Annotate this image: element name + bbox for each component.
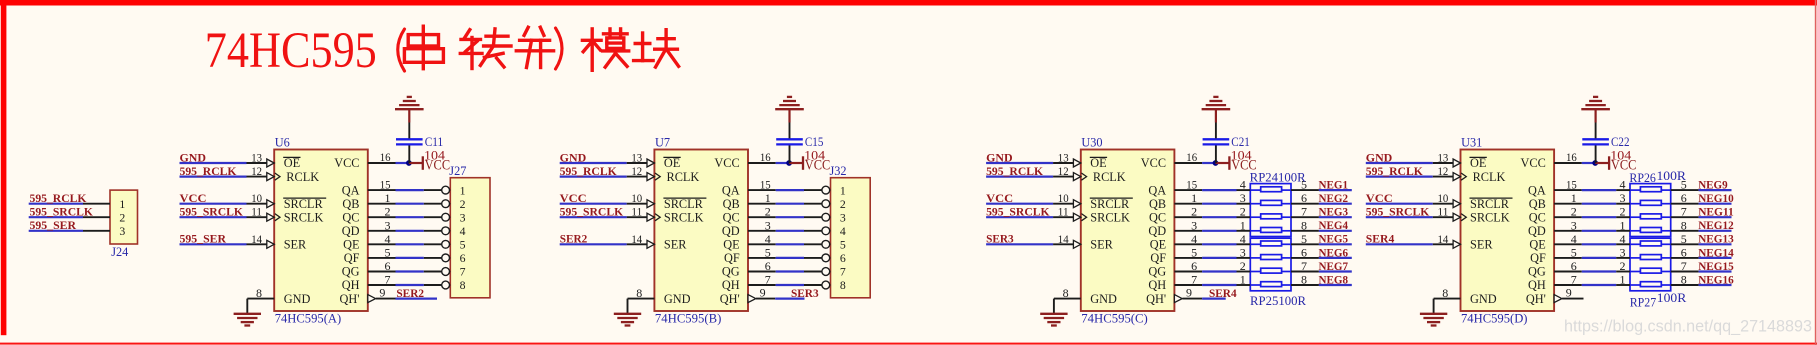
svg-text:5: 5	[385, 245, 391, 259]
svg-text:J24: J24	[111, 245, 128, 259]
svg-text:3: 3	[840, 210, 846, 224]
svg-text:C22: C22	[1611, 135, 1630, 149]
svg-text:OE: OE	[664, 156, 680, 170]
svg-text:4: 4	[1620, 232, 1626, 246]
svg-text:8: 8	[256, 286, 262, 300]
svg-text:12: 12	[631, 164, 642, 178]
svg-text:74HC595(A): 74HC595(A)	[275, 312, 342, 326]
svg-text:3: 3	[385, 218, 391, 232]
svg-text:4: 4	[460, 224, 466, 238]
svg-text:SER4: SER4	[1209, 288, 1237, 300]
svg-text:QF: QF	[724, 251, 740, 265]
svg-text:SRCLR: SRCLR	[1470, 197, 1510, 211]
svg-text:QD: QD	[722, 224, 740, 238]
svg-text:7: 7	[1301, 205, 1307, 219]
svg-text:13: 13	[631, 151, 642, 165]
svg-text:4: 4	[765, 232, 771, 246]
svg-text:https://blog.csdn.net/qq_27148: https://blog.csdn.net/qq_27148893	[1564, 318, 1812, 336]
svg-text:QH': QH'	[720, 292, 740, 306]
svg-text:8: 8	[1442, 286, 1448, 300]
svg-text:QD: QD	[1148, 224, 1166, 238]
svg-text:4: 4	[1571, 232, 1577, 246]
svg-text:QB: QB	[1149, 197, 1166, 211]
svg-text:15: 15	[380, 178, 391, 192]
svg-text:RCLK: RCLK	[1093, 170, 1126, 184]
svg-text:5: 5	[1571, 245, 1577, 259]
svg-text:QB: QB	[1529, 197, 1546, 211]
svg-text:VCC: VCC	[1141, 156, 1166, 170]
svg-text:RP27: RP27	[1630, 295, 1657, 309]
svg-text:16: 16	[380, 150, 391, 164]
svg-text:12: 12	[1058, 164, 1069, 178]
svg-text:VCC: VCC	[560, 193, 587, 205]
svg-text:4: 4	[1240, 232, 1246, 246]
svg-text:8: 8	[1301, 218, 1307, 232]
svg-text:QG: QG	[722, 265, 740, 279]
svg-text:1: 1	[840, 183, 846, 197]
svg-text:NEG5: NEG5	[1319, 234, 1349, 246]
svg-text:2: 2	[1620, 205, 1626, 219]
svg-text:104: 104	[1610, 148, 1631, 162]
svg-text:QH: QH	[342, 278, 360, 292]
svg-text:12: 12	[251, 164, 262, 178]
svg-text:NEG3: NEG3	[1319, 207, 1349, 219]
svg-text:QG: QG	[342, 265, 360, 279]
svg-text:14: 14	[1438, 232, 1449, 246]
svg-text:J27: J27	[449, 164, 466, 178]
svg-text:595_SER: 595_SER	[30, 220, 77, 232]
svg-text:VCC: VCC	[180, 193, 207, 205]
svg-text:QF: QF	[1530, 251, 1546, 265]
svg-text:NEG13: NEG13	[1698, 234, 1734, 246]
svg-text:GND: GND	[1366, 152, 1393, 164]
svg-text:NEG10: NEG10	[1698, 193, 1734, 205]
svg-text:6: 6	[460, 251, 466, 265]
svg-text:6: 6	[1681, 191, 1687, 205]
svg-text:QA: QA	[1148, 183, 1166, 197]
svg-text:2: 2	[765, 205, 771, 219]
svg-text:7: 7	[1681, 205, 1687, 219]
svg-text:10: 10	[1058, 191, 1069, 205]
svg-text:3: 3	[1240, 191, 1246, 205]
svg-text:GND: GND	[1470, 292, 1497, 306]
svg-text:1: 1	[119, 197, 125, 211]
svg-text:QC: QC	[342, 210, 359, 224]
svg-text:VCC: VCC	[334, 156, 359, 170]
svg-text:12: 12	[1438, 164, 1449, 178]
svg-text:OE: OE	[1090, 156, 1106, 170]
svg-text:SRCLR: SRCLR	[284, 197, 324, 211]
svg-text:13: 13	[1058, 151, 1069, 165]
svg-text:SER2: SER2	[396, 288, 424, 300]
svg-text:7: 7	[1191, 273, 1197, 287]
svg-text:2: 2	[1240, 205, 1246, 219]
svg-text:104: 104	[1231, 148, 1252, 162]
svg-text:15: 15	[1566, 178, 1577, 192]
svg-text:14: 14	[251, 232, 262, 246]
svg-text:1: 1	[1240, 273, 1246, 287]
svg-text:5: 5	[1301, 232, 1307, 246]
svg-text:14: 14	[1058, 232, 1069, 246]
svg-text:RCLK: RCLK	[286, 170, 319, 184]
svg-text:74HC595(C): 74HC595(C)	[1081, 312, 1148, 326]
svg-text:2: 2	[1571, 205, 1577, 219]
svg-text:3: 3	[765, 218, 771, 232]
svg-text:16: 16	[760, 150, 771, 164]
svg-text:NEG6: NEG6	[1319, 247, 1349, 259]
svg-text:1: 1	[765, 191, 771, 205]
svg-text:GND: GND	[180, 152, 207, 164]
svg-text:1: 1	[1620, 273, 1626, 287]
svg-text:VCC: VCC	[986, 193, 1013, 205]
svg-text:VCC: VCC	[1366, 193, 1393, 205]
svg-text:QD: QD	[342, 224, 360, 238]
svg-text:3: 3	[1191, 218, 1197, 232]
svg-text:11: 11	[251, 205, 262, 219]
svg-text:8: 8	[840, 278, 846, 292]
svg-text:1: 1	[1571, 191, 1577, 205]
svg-text:6: 6	[1301, 191, 1307, 205]
svg-text:QA: QA	[1528, 183, 1546, 197]
svg-text:U30: U30	[1081, 135, 1102, 149]
svg-text:595_SER: 595_SER	[180, 234, 227, 246]
svg-text:2: 2	[385, 205, 391, 219]
svg-text:595_SRCLK: 595_SRCLK	[180, 207, 244, 219]
svg-text:13: 13	[251, 151, 262, 165]
svg-text:9: 9	[379, 286, 385, 300]
svg-text:8: 8	[1681, 218, 1687, 232]
svg-text:SER2: SER2	[560, 234, 588, 246]
svg-text:104: 104	[424, 148, 445, 162]
svg-text:QE: QE	[1529, 238, 1545, 252]
svg-text:NEG11: NEG11	[1698, 207, 1734, 219]
svg-text:595_SRCLK: 595_SRCLK	[1366, 207, 1430, 219]
svg-text:595_RCLK: 595_RCLK	[560, 166, 617, 178]
svg-text:5: 5	[460, 238, 466, 252]
svg-text:595_SRCLK: 595_SRCLK	[560, 207, 624, 219]
svg-text:2: 2	[460, 197, 466, 211]
svg-text:100R: 100R	[1657, 291, 1687, 305]
svg-text:QC: QC	[1529, 210, 1546, 224]
svg-text:QG: QG	[1148, 265, 1166, 279]
svg-text:13: 13	[1438, 151, 1449, 165]
svg-text:SER: SER	[1470, 238, 1493, 252]
svg-text:3: 3	[119, 224, 125, 238]
svg-text:C21: C21	[1231, 135, 1250, 149]
svg-text:2: 2	[1240, 259, 1246, 273]
svg-text:C11: C11	[425, 135, 444, 149]
svg-text:4: 4	[385, 232, 391, 246]
svg-text:595_RCLK: 595_RCLK	[180, 166, 237, 178]
svg-text:NEG9: NEG9	[1698, 180, 1728, 192]
svg-text:SRCLK: SRCLK	[1090, 210, 1130, 224]
svg-text:1: 1	[385, 191, 391, 205]
svg-text:SER4: SER4	[1366, 234, 1395, 246]
svg-text:U31: U31	[1461, 135, 1482, 149]
svg-text:5: 5	[1191, 245, 1197, 259]
svg-text:1: 1	[460, 183, 466, 197]
svg-text:RCLK: RCLK	[667, 170, 700, 184]
svg-text:NEG4: NEG4	[1319, 220, 1349, 232]
svg-text:QE: QE	[1150, 238, 1166, 252]
svg-text:1: 1	[1191, 191, 1197, 205]
svg-text:GND: GND	[986, 152, 1013, 164]
svg-text:8: 8	[636, 286, 642, 300]
svg-text:4: 4	[840, 224, 846, 238]
svg-text:16: 16	[1186, 150, 1197, 164]
svg-text:2: 2	[119, 210, 125, 224]
svg-text:5: 5	[840, 238, 846, 252]
svg-text:7: 7	[1301, 259, 1307, 273]
svg-text:11: 11	[631, 205, 642, 219]
svg-text:7: 7	[765, 273, 771, 287]
svg-text:6: 6	[385, 259, 391, 273]
svg-text:4: 4	[1240, 178, 1246, 192]
svg-text:QH: QH	[722, 278, 740, 292]
svg-text:NEG14: NEG14	[1698, 247, 1734, 259]
svg-text:6: 6	[1301, 245, 1307, 259]
svg-text:11: 11	[1438, 205, 1449, 219]
svg-text:4: 4	[1191, 232, 1197, 246]
svg-text:595_SRCLK: 595_SRCLK	[986, 207, 1050, 219]
svg-text:8: 8	[1063, 286, 1069, 300]
svg-text:GND: GND	[1090, 292, 1117, 306]
svg-text:15: 15	[1186, 178, 1197, 192]
svg-text:104: 104	[804, 148, 825, 162]
svg-text:RCLK: RCLK	[1473, 170, 1506, 184]
svg-text:QF: QF	[1150, 251, 1166, 265]
svg-text:QG: QG	[1528, 265, 1546, 279]
svg-text:6: 6	[1571, 259, 1577, 273]
svg-text:14: 14	[631, 232, 642, 246]
svg-text:QB: QB	[342, 197, 359, 211]
svg-text:10: 10	[1438, 191, 1449, 205]
svg-text:2: 2	[1620, 259, 1626, 273]
svg-text:GND: GND	[560, 152, 587, 164]
svg-text:SRCLK: SRCLK	[664, 210, 704, 224]
svg-text:SRCLR: SRCLR	[664, 197, 704, 211]
svg-text:QH': QH'	[1146, 292, 1166, 306]
svg-text:QB: QB	[723, 197, 740, 211]
svg-text:OE: OE	[1470, 156, 1486, 170]
svg-text:3: 3	[1240, 245, 1246, 259]
svg-text:RP26: RP26	[1629, 171, 1656, 185]
svg-text:SER: SER	[1090, 238, 1113, 252]
svg-text:3: 3	[1571, 218, 1577, 232]
svg-text:100R: 100R	[1657, 169, 1687, 183]
svg-text:2: 2	[840, 197, 846, 211]
svg-text:6: 6	[1191, 259, 1197, 273]
svg-text:NEG1: NEG1	[1319, 180, 1349, 192]
svg-text:C15: C15	[805, 135, 824, 149]
svg-text:3: 3	[1620, 245, 1626, 259]
svg-text:SRCLR: SRCLR	[1090, 197, 1130, 211]
svg-text:6: 6	[1681, 245, 1687, 259]
svg-text:6: 6	[765, 259, 771, 273]
svg-text:8: 8	[460, 278, 466, 292]
svg-text:10: 10	[251, 191, 262, 205]
svg-text:8: 8	[1681, 273, 1687, 287]
svg-text:VCC: VCC	[1521, 156, 1546, 170]
svg-text:1: 1	[1240, 218, 1246, 232]
svg-text:NEG16: NEG16	[1698, 274, 1734, 286]
svg-text:595_RCLK: 595_RCLK	[1366, 166, 1423, 178]
svg-text:16: 16	[1566, 150, 1577, 164]
svg-text:SER3: SER3	[986, 234, 1014, 246]
svg-text:7: 7	[460, 265, 466, 279]
svg-text:RP25100R: RP25100R	[1250, 294, 1307, 308]
svg-text:QH: QH	[1528, 278, 1546, 292]
svg-text:9: 9	[760, 286, 766, 300]
svg-text:SER: SER	[284, 238, 307, 252]
svg-text:3: 3	[1620, 191, 1626, 205]
svg-text:9: 9	[1186, 286, 1192, 300]
svg-text:NEG12: NEG12	[1698, 220, 1734, 232]
svg-text:GND: GND	[664, 292, 691, 306]
svg-text:3: 3	[460, 210, 466, 224]
svg-text:NEG2: NEG2	[1319, 193, 1349, 205]
svg-text:QC: QC	[1149, 210, 1166, 224]
svg-text:9: 9	[1566, 286, 1572, 300]
svg-text:SER: SER	[664, 238, 687, 252]
svg-text:SER3: SER3	[791, 288, 819, 300]
svg-text:4: 4	[1620, 178, 1626, 192]
svg-text:QH': QH'	[1526, 292, 1546, 306]
svg-text:QE: QE	[723, 238, 739, 252]
svg-text:J32: J32	[830, 164, 847, 178]
svg-text:7: 7	[1571, 273, 1577, 287]
svg-text:7: 7	[840, 265, 846, 279]
svg-text:74HC595: 74HC595	[205, 23, 377, 79]
svg-text:QH: QH	[1148, 278, 1166, 292]
svg-text:595_RCLK: 595_RCLK	[986, 166, 1043, 178]
svg-text:NEG8: NEG8	[1319, 274, 1349, 286]
svg-text:7: 7	[385, 273, 391, 287]
svg-text:10: 10	[631, 191, 642, 205]
svg-text:7: 7	[1681, 259, 1687, 273]
svg-text:15: 15	[760, 178, 771, 192]
svg-text:QF: QF	[344, 251, 360, 265]
svg-text:QD: QD	[1528, 224, 1546, 238]
svg-text:NEG15: NEG15	[1698, 261, 1734, 273]
svg-text:QA: QA	[342, 183, 360, 197]
svg-text:VCC: VCC	[714, 156, 739, 170]
svg-text:U7: U7	[655, 135, 670, 149]
svg-text:6: 6	[840, 251, 846, 265]
svg-text:SRCLK: SRCLK	[1470, 210, 1510, 224]
svg-text:U6: U6	[275, 135, 290, 149]
svg-text:QA: QA	[722, 183, 740, 197]
svg-text:595_SRCLK: 595_SRCLK	[30, 207, 94, 219]
svg-text:QC: QC	[723, 210, 740, 224]
svg-text:RP24100R: RP24100R	[1250, 171, 1307, 185]
svg-text:QH': QH'	[340, 292, 360, 306]
svg-text:GND: GND	[284, 292, 311, 306]
svg-text:OE: OE	[284, 156, 300, 170]
svg-text:5: 5	[1681, 232, 1687, 246]
svg-text:11: 11	[1058, 205, 1069, 219]
svg-text:2: 2	[1191, 205, 1197, 219]
svg-text:SRCLK: SRCLK	[284, 210, 324, 224]
svg-text:74HC595(D): 74HC595(D)	[1461, 312, 1528, 326]
svg-text:QE: QE	[343, 238, 359, 252]
svg-text:74HC595(B): 74HC595(B)	[655, 312, 722, 326]
svg-text:1: 1	[1620, 218, 1626, 232]
svg-text:8: 8	[1301, 273, 1307, 287]
svg-text:5: 5	[765, 245, 771, 259]
svg-text:NEG7: NEG7	[1319, 261, 1349, 273]
svg-text:595_RCLK: 595_RCLK	[30, 193, 87, 205]
